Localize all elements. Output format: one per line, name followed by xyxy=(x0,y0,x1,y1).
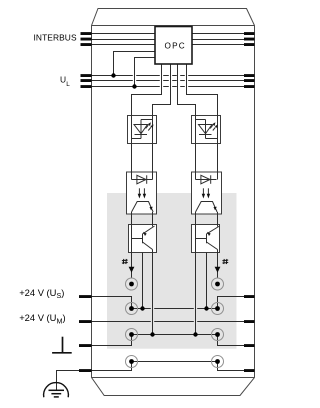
svg-text:U: U xyxy=(60,74,66,84)
svg-text:L: L xyxy=(66,81,70,88)
svg-text:INTERBUS: INTERBUS xyxy=(34,32,77,42)
svg-text:OPC: OPC xyxy=(165,41,186,50)
